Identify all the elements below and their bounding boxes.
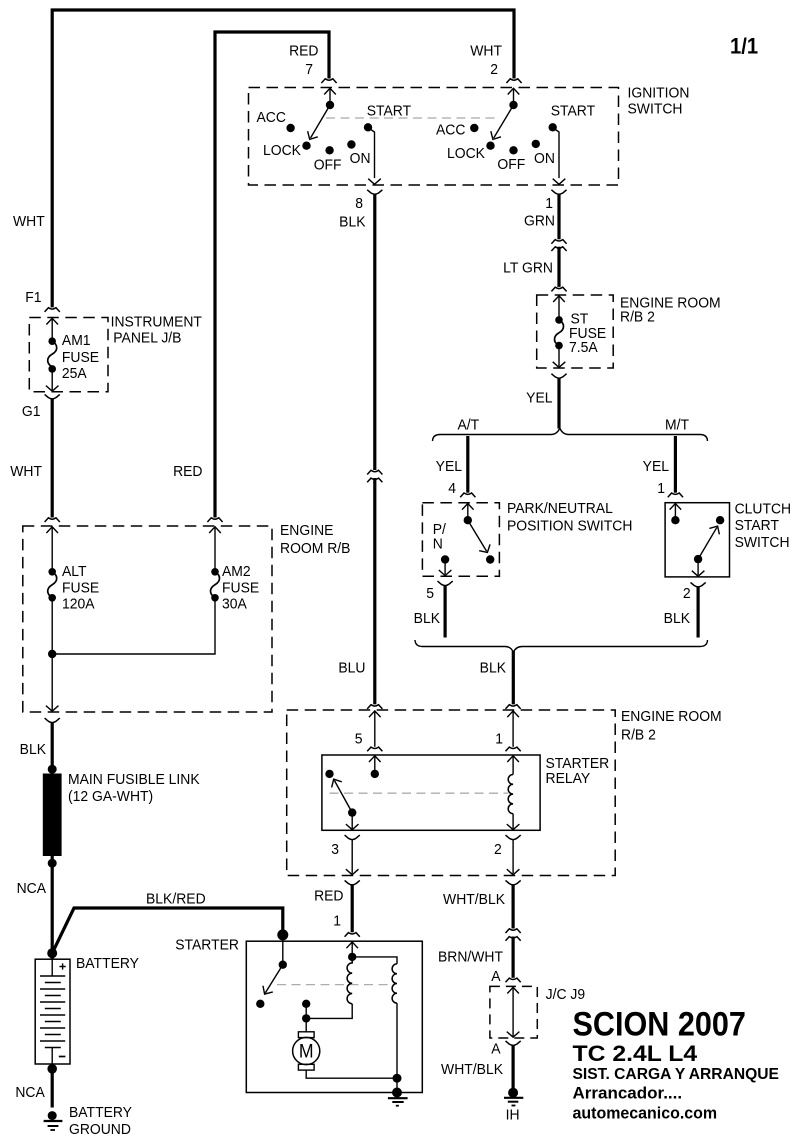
wire WHT/BLK from relay	[511, 885, 514, 929]
connector into R/B2 right	[505, 705, 520, 709]
svg-text:ENGINE: ENGINE	[280, 523, 334, 540]
starter box	[246, 941, 422, 1092]
ignition sw1 ON contact	[347, 140, 355, 148]
svg-text:SCION 2007: SCION 2007	[573, 1005, 746, 1043]
svg-text:SWITCH: SWITCH	[735, 535, 790, 552]
svg-text:J/C J9: J/C J9	[546, 987, 586, 1004]
wire WHT/BLK to ground	[511, 1045, 514, 1089]
svg-text:ON: ON	[350, 151, 371, 168]
P/N lower right contact	[486, 555, 494, 563]
relay wire 3 to R/B2 edge	[351, 839, 353, 873]
inline connector pair on WHT/BLK wire	[505, 929, 520, 933]
svg-text:IH: IH	[506, 1107, 520, 1124]
P/N output contact	[441, 555, 449, 563]
battery internal stem	[51, 959, 53, 976]
svg-text:5: 5	[426, 586, 434, 603]
svg-text:R/B 2: R/B 2	[620, 309, 655, 326]
wire ALT down	[51, 598, 53, 710]
svg-text:PANEL J/B: PANEL J/B	[113, 330, 181, 347]
ignition sw2 pivot contact	[509, 101, 517, 109]
connector into ST fuse box	[551, 287, 566, 291]
svg-text:PARK/NEUTRAL: PARK/NEUTRAL	[507, 501, 613, 518]
connector 8 below ignition	[367, 190, 382, 195]
svg-text:1/1: 1/1	[730, 35, 758, 59]
svg-text:Arrancador....: Arrancador....	[573, 1084, 683, 1103]
wire BRN/WHT	[511, 937, 514, 978]
starter switch fixed contact	[256, 1000, 264, 1008]
svg-text:ACC: ACC	[436, 122, 465, 139]
svg-text:IGNITION: IGNITION	[628, 85, 690, 102]
starter ground	[388, 1097, 408, 1099]
fuse ST 7.5A	[555, 316, 563, 324]
svg-text:(12 GA-WHT): (12 GA-WHT)	[68, 789, 153, 806]
wire LT GRN	[557, 247, 560, 287]
wire to starter ground	[396, 1078, 398, 1092]
starter hold-in coil	[392, 964, 397, 1003]
ignition sw1 wiper arrow to LOCK	[311, 105, 331, 138]
starter entry arrow 1	[346, 942, 358, 948]
wire BLK from ignition pin 8	[373, 194, 376, 470]
connector 7 female	[321, 79, 336, 83]
relay entry arrow left	[369, 756, 381, 762]
svg-text:NCA: NCA	[15, 1085, 45, 1102]
svg-text:GRN: GRN	[524, 213, 555, 230]
connector A into J/C J9	[505, 978, 520, 982]
starter pull-in coil	[347, 957, 352, 1004]
battery box	[35, 959, 70, 1064]
svg-text:A: A	[491, 969, 501, 986]
svg-text:INSTRUMENT: INSTRUMENT	[111, 314, 203, 331]
svg-text:F1: F1	[25, 290, 41, 307]
ST fuse entry arrow	[553, 296, 565, 302]
connector 2 below relay	[505, 835, 520, 840]
relay contact fixed	[325, 770, 333, 778]
svg-text:N: N	[433, 536, 443, 553]
svg-text:TC 2.4L L4: TC 2.4L L4	[573, 1042, 699, 1067]
svg-text:BLK: BLK	[664, 611, 691, 628]
relay coil entry arrow	[507, 756, 519, 762]
relay contact feed	[371, 770, 379, 778]
svg-text:FUSE: FUSE	[222, 580, 260, 597]
svg-text:30A: 30A	[222, 596, 247, 613]
svg-text:3: 3	[331, 842, 339, 859]
wire AM2 to junction	[52, 598, 215, 654]
svg-text:OFF: OFF	[314, 157, 342, 174]
svg-text:1: 1	[657, 481, 665, 498]
wire BLK merged	[512, 651, 515, 704]
ignition gang link (grey dashed)	[326, 117, 499, 119]
svg-text:MAIN FUSIBLE LINK: MAIN FUSIBLE LINK	[68, 772, 200, 789]
wire GRN	[557, 194, 560, 239]
svg-text:BLK: BLK	[414, 611, 441, 628]
junction node	[48, 650, 56, 658]
svg-text:LOCK: LOCK	[263, 143, 301, 160]
connector into R/B right	[207, 518, 222, 522]
ignition sw1 ACC contact	[286, 124, 294, 132]
split brace A/T M/T	[433, 428, 708, 441]
connector 4 into P/N switch	[460, 493, 475, 497]
connector 2 female	[506, 79, 521, 83]
svg-text:BLK/RED: BLK/RED	[146, 891, 206, 908]
wire contact to motor	[305, 1004, 307, 1032]
connector into R/B2 left	[367, 705, 382, 709]
clutch left contact	[671, 516, 679, 524]
R/B2 entry arrow 5	[369, 711, 381, 717]
engine room R/B box	[23, 526, 272, 712]
relay wiper arrow	[334, 781, 352, 813]
svg-text:SIST. CARGA Y ARRANQUE: SIST. CARGA Y ARRANQUE	[573, 1066, 779, 1083]
wire hold-in coil to ground node	[396, 1003, 398, 1078]
svg-text:FUSE: FUSE	[62, 350, 100, 367]
relay switch exit arrow	[351, 813, 353, 829]
battery negative node	[47, 1064, 57, 1074]
connector below ST fuse box	[551, 374, 566, 379]
svg-text:ALT: ALT	[62, 564, 87, 581]
battery bottom stem	[51, 1048, 53, 1065]
svg-text:BLK: BLK	[339, 214, 366, 231]
starter feed node	[277, 929, 288, 940]
instrument panel J/B box	[29, 318, 108, 392]
connector F1 female	[45, 308, 60, 312]
svg-text:A: A	[491, 1041, 501, 1058]
battery plus sign	[60, 963, 66, 969]
svg-text:G1: G1	[22, 404, 41, 421]
svg-text:START: START	[551, 103, 596, 120]
svg-text:LOCK: LOCK	[447, 146, 485, 163]
wire motor to ground node	[306, 1070, 397, 1078]
ignition sw1 START output wire	[369, 128, 375, 178]
R/B exit arrow	[46, 706, 59, 712]
svg-text:2: 2	[683, 586, 691, 603]
svg-text:BATTERY: BATTERY	[69, 1105, 132, 1122]
svg-text:RED: RED	[173, 464, 202, 481]
AM2 entry arrow	[209, 527, 221, 533]
svg-text:RELAY: RELAY	[546, 771, 591, 788]
svg-text:AM2: AM2	[222, 564, 251, 581]
inline connector pair on BLK wire	[367, 470, 382, 474]
svg-text:ACC: ACC	[257, 110, 286, 127]
svg-text:POSITION SWITCH: POSITION SWITCH	[507, 518, 632, 535]
starter motor contact upper	[302, 1000, 310, 1008]
ST fuse exit arrow	[558, 346, 560, 367]
svg-text:START: START	[367, 103, 412, 120]
svg-text:AM1: AM1	[62, 333, 91, 350]
svg-text:NCA: NCA	[17, 881, 47, 898]
connector below R/B2 right	[505, 880, 520, 885]
J/C J9 through wire	[507, 987, 519, 993]
connector 2 male arrow into box	[508, 88, 520, 94]
svg-text:WHT: WHT	[470, 43, 502, 60]
svg-text:8: 8	[355, 196, 363, 213]
fuse AM1 25A	[48, 337, 56, 345]
svg-text:YEL: YEL	[643, 459, 669, 476]
ignition sw2 ACC contact	[470, 124, 478, 132]
ignition switch box	[249, 88, 619, 186]
connector below R/B2 left	[345, 880, 360, 885]
starter ground node	[392, 1088, 402, 1098]
wire BLK from P/N	[444, 585, 447, 637]
wire: red feed to ignition pin 7	[215, 32, 329, 518]
ignition sw2 OFF contact	[509, 146, 517, 154]
starter motor contact lower	[302, 1014, 310, 1022]
svg-text:A/T: A/T	[458, 417, 480, 434]
inline connector pair on GRN wire	[551, 240, 566, 244]
svg-text:120A: 120A	[62, 596, 95, 613]
svg-text:ROOM R/B: ROOM R/B	[280, 541, 350, 558]
svg-text:BATTERY: BATTERY	[76, 956, 139, 973]
connector 1 female at relay	[505, 747, 520, 751]
ignition sw1 LOCK contact	[302, 142, 310, 150]
ground IH	[508, 1088, 518, 1098]
P/N exit arrow	[444, 560, 446, 575]
svg-text:2: 2	[490, 62, 498, 79]
wire YEL from ST fuse	[557, 378, 560, 429]
svg-text:WHT/BLK: WHT/BLK	[441, 1062, 503, 1079]
junction connector J/C J9 box	[490, 986, 537, 1038]
svg-text:1: 1	[333, 913, 341, 930]
motor M brush top	[298, 1032, 314, 1038]
svg-text:BLK: BLK	[480, 660, 507, 677]
starter switch wiper arrow	[265, 965, 283, 993]
main fusible link node bottom	[48, 859, 57, 868]
clutch wiper arrow	[698, 527, 717, 559]
ignition sw1 OFF contact	[325, 146, 333, 154]
svg-text:YEL: YEL	[436, 459, 462, 476]
AM1 entry arrow	[46, 318, 58, 324]
wire coil1 to contact	[306, 1004, 352, 1019]
ignition sw2 LOCK contact	[486, 142, 494, 150]
svg-text:OFF: OFF	[497, 157, 525, 174]
ignition sw1 pivot contact	[326, 101, 334, 109]
svg-text:M/T: M/T	[665, 417, 689, 434]
wire RED to starter	[351, 885, 354, 933]
svg-text:BLU: BLU	[338, 660, 365, 677]
ground junction node	[393, 1074, 402, 1083]
engine room R/B 2 ST fuse box	[537, 295, 614, 368]
svg-text:CLUTCH: CLUTCH	[735, 501, 792, 518]
relay wire 2 to R/B2 edge	[512, 839, 514, 873]
fuse AM2 30A	[211, 568, 219, 576]
wire BLK/RED to starter	[52, 908, 283, 953]
park/neutral position switch box	[422, 503, 499, 577]
svg-text:WHT/BLK: WHT/BLK	[443, 892, 505, 909]
connector G1	[45, 394, 60, 399]
motor M brush bottom	[298, 1064, 314, 1070]
junction node battery positive	[47, 948, 57, 958]
relay moving contact	[348, 808, 356, 816]
wire BLK from clutch	[696, 587, 699, 638]
connector A below J/C J9	[505, 1041, 520, 1046]
connector into R/B left	[45, 518, 60, 522]
svg-text:WHT: WHT	[10, 464, 42, 481]
svg-text:LT GRN: LT GRN	[503, 260, 553, 277]
svg-text:ON: ON	[534, 151, 555, 168]
wire BLU to engine room R/B 2	[373, 478, 376, 704]
connector 5 female at relay	[367, 747, 382, 751]
svg-text:WHT: WHT	[13, 214, 45, 231]
wire NCA to battery	[51, 856, 54, 959]
ALT entry arrow	[46, 527, 58, 533]
merge brace to starter relay	[415, 640, 708, 652]
AM1 exit arrow	[51, 369, 53, 390]
ignition sw2 wiper arrow to LOCK	[494, 105, 514, 138]
svg-text:YEL: YEL	[526, 390, 552, 407]
relay link (grey dashed)	[330, 792, 509, 794]
P/N wiper arrow	[468, 520, 487, 551]
ignition sw2 START output wire	[553, 128, 559, 178]
P/N top contact	[464, 516, 472, 524]
svg-text:RED: RED	[289, 43, 318, 60]
starter link (grey dashed)	[277, 984, 392, 986]
svg-text:SWITCH: SWITCH	[628, 101, 683, 118]
svg-text:7: 7	[305, 62, 313, 79]
P/N entry arrow	[462, 504, 474, 510]
svg-text:25A: 25A	[62, 366, 87, 383]
wire WHT to engine room R/B	[51, 399, 54, 518]
connector 3 below relay	[345, 835, 360, 840]
battery ground	[48, 1111, 57, 1120]
battery plates	[40, 976, 65, 1048]
svg-text:1: 1	[545, 196, 553, 213]
svg-text:4: 4	[448, 481, 456, 498]
main fusible link node top	[48, 765, 57, 774]
connector below R/B	[45, 718, 60, 723]
clutch start switch box	[665, 503, 729, 577]
svg-text:STARTER: STARTER	[175, 937, 239, 954]
connector 1 into clutch switch	[668, 493, 683, 497]
starter relay box	[322, 755, 540, 830]
main fusible link bar	[43, 774, 62, 857]
wire: battery feed frame top	[52, 10, 514, 307]
svg-text:RED: RED	[314, 888, 343, 905]
connector 2 below clutch switch	[691, 582, 706, 587]
battery minus sign	[59, 1056, 66, 1058]
clutch entry arrow	[670, 504, 682, 510]
svg-text:GROUND: GROUND	[69, 1122, 131, 1139]
starter switch moving contact	[279, 961, 287, 969]
R/B2 entry arrow 1	[507, 711, 519, 717]
svg-text:5: 5	[355, 731, 363, 748]
relay coil	[508, 775, 513, 814]
svg-text:FUSE: FUSE	[62, 580, 100, 597]
wire to hold-in coil	[352, 957, 397, 964]
svg-text:ENGINE ROOM: ENGINE ROOM	[621, 709, 722, 726]
svg-text:2: 2	[494, 842, 502, 859]
starter solenoid node	[348, 953, 356, 961]
connector 1 below ignition	[551, 190, 566, 195]
fuse ALT 120A	[48, 568, 56, 576]
motor M body	[293, 1037, 320, 1064]
svg-text:7.5A: 7.5A	[569, 340, 598, 357]
wire BLK to fusible link	[51, 722, 54, 769]
svg-text:BRN/WHT: BRN/WHT	[438, 949, 503, 966]
starter switch feed wire	[282, 935, 284, 965]
svg-text:M: M	[299, 1040, 314, 1062]
clutch moving contact	[694, 555, 702, 563]
svg-text:R/B 2: R/B 2	[621, 727, 656, 744]
wire NCA to ground	[51, 1064, 54, 1108]
wire YEL A/T branch	[466, 436, 469, 493]
svg-text:1: 1	[495, 731, 503, 748]
connector 5 below P/N switch	[438, 581, 453, 586]
connector 1 into starter	[345, 933, 360, 937]
svg-text:BLK: BLK	[20, 742, 47, 759]
wire YEL M/T branch	[674, 436, 677, 493]
clutch exit arrow	[697, 559, 699, 575]
ignition sw2 ON contact	[532, 140, 540, 148]
svg-text:automecanico.com: automecanico.com	[573, 1104, 718, 1123]
svg-text:START: START	[735, 518, 780, 535]
clutch right contact	[716, 516, 724, 524]
engine room R/B 2 box	[287, 710, 616, 876]
relay coil exit arrow	[512, 814, 514, 829]
connector 7 male arrow into box	[324, 88, 336, 94]
